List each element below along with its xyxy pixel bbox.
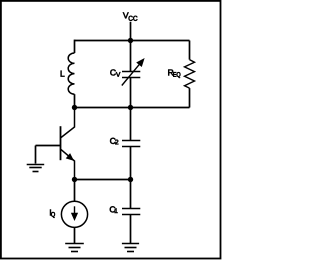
capacitor C1 top plate xyxy=(122,208,140,210)
capacitor CV top plate xyxy=(122,71,140,73)
wire CV top lead xyxy=(130,41,132,72)
capacitor CV variable arrowhead xyxy=(137,59,144,66)
wire IQ top lead xyxy=(74,180,76,202)
current source IQ arrow shaft xyxy=(74,206,76,215)
capacitor C2 bottom plate xyxy=(122,146,140,148)
ground symbol at base xyxy=(27,165,45,172)
wire C1 bottom lead xyxy=(130,215,132,244)
current source IQ circle xyxy=(61,201,87,227)
ground symbol at IQ xyxy=(65,244,84,252)
wire REQ top lead xyxy=(189,41,191,60)
capacitor CV variable arrow shaft xyxy=(122,64,140,85)
wire VCC stub xyxy=(130,22,132,41)
wire C2 top lead xyxy=(130,108,132,141)
wire inductor bottom lead xyxy=(74,94,76,107)
wire inductor top lead xyxy=(74,40,76,53)
wire C2 bottom lead xyxy=(130,147,132,180)
current source IQ arrowhead xyxy=(71,213,78,221)
wire base lead xyxy=(36,145,62,147)
transistor Q1 base bar xyxy=(60,126,62,160)
capacitor C1 bottom plate xyxy=(122,214,140,216)
node junction CV C2 xyxy=(128,105,133,110)
inductor L value label xyxy=(61,71,65,77)
ground symbol at C1 xyxy=(122,244,139,252)
node junction inductor collector xyxy=(72,105,77,110)
wire REQ bottom lead xyxy=(189,88,191,107)
resistor REQ label xyxy=(168,70,180,78)
capacitor CV label xyxy=(110,69,120,76)
wire collector lead xyxy=(61,108,75,138)
wire base ground lead xyxy=(35,146,37,164)
wire lower rail xyxy=(75,179,131,181)
border frame xyxy=(1,1,221,259)
capacitor C2 top plate xyxy=(122,140,140,142)
transistor Q1 emitter lead xyxy=(61,149,75,179)
wire C1 top lead xyxy=(130,180,132,209)
wire top rail xyxy=(75,40,190,42)
capacitor C2 label xyxy=(110,138,118,144)
capacitor C1 label xyxy=(110,206,118,213)
inductor L coil xyxy=(68,53,74,94)
current source IQ label xyxy=(50,210,55,218)
wire CV bottom lead xyxy=(130,78,132,108)
transistor Q1 emitter arrowhead xyxy=(66,154,73,160)
wire IQ bottom lead xyxy=(74,227,76,243)
resistor REQ zigzag xyxy=(185,60,195,89)
node junction C2 C1 xyxy=(128,177,133,182)
node junction emitter IQ xyxy=(72,177,77,182)
capacitor CV bottom plate xyxy=(122,77,140,79)
node junction VCC top rail xyxy=(128,38,133,43)
wire mid rail xyxy=(75,107,190,109)
net VCC label xyxy=(123,12,137,20)
